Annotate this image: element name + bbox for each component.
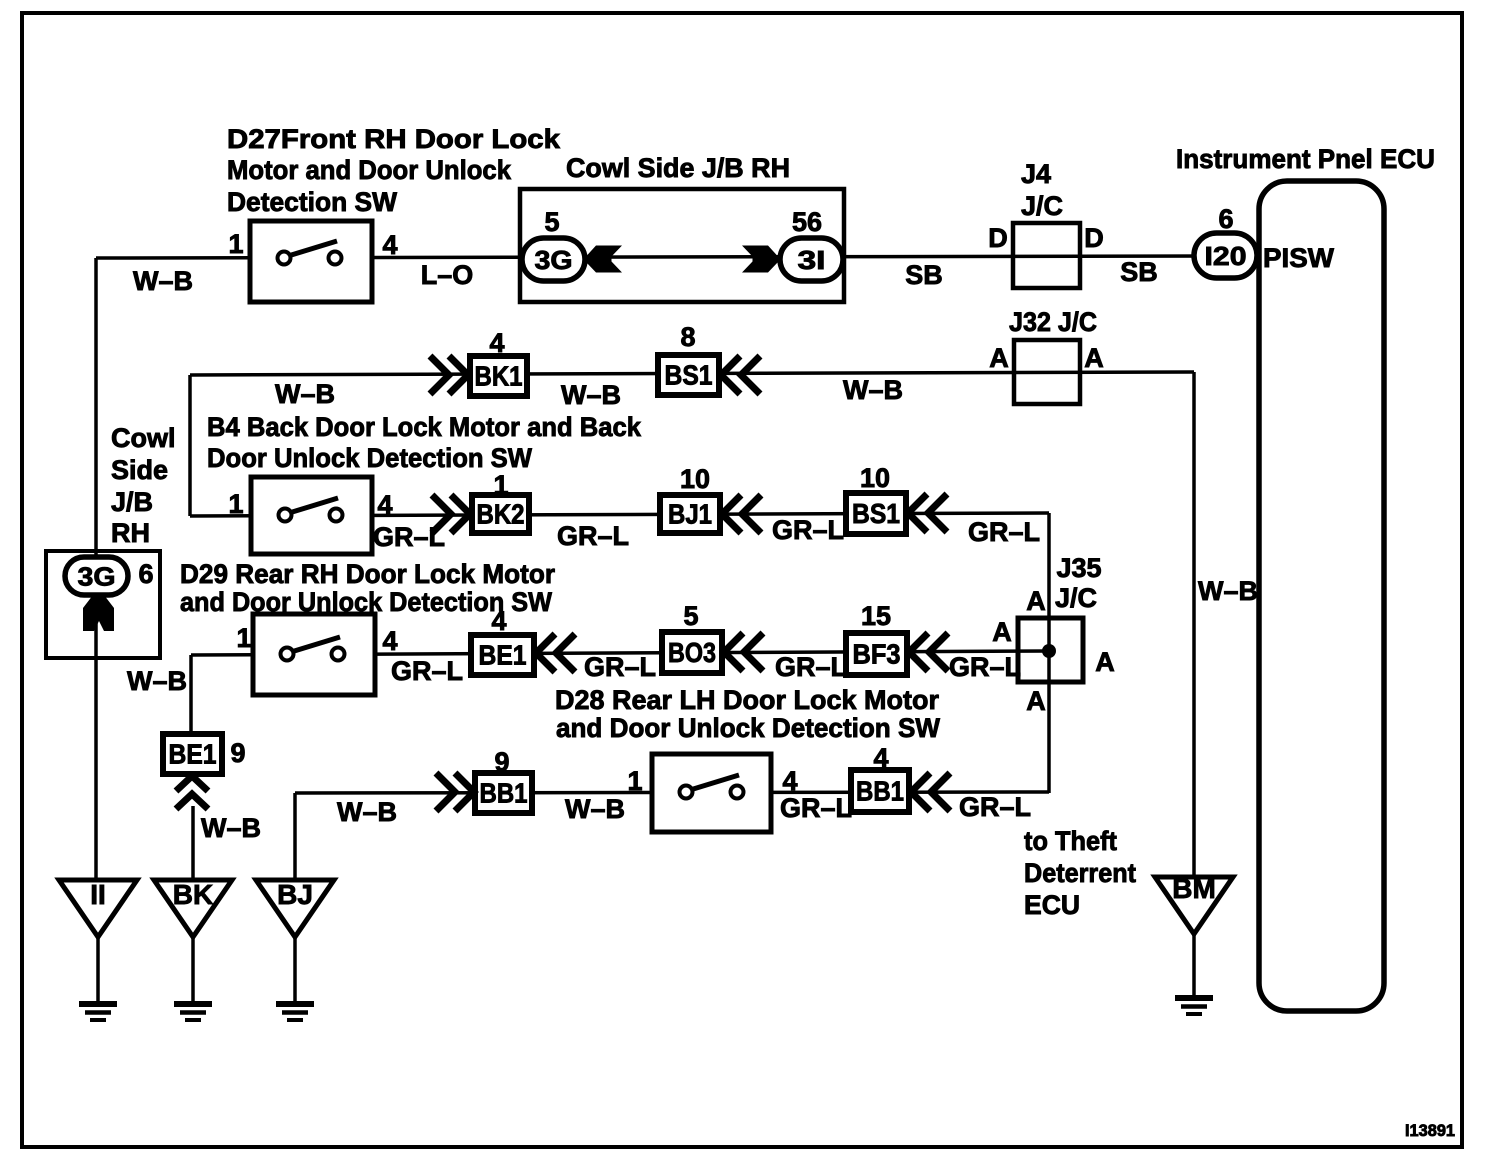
svg-text:1: 1 xyxy=(228,489,243,519)
junction block Cowl Side J/B RH (top) xyxy=(520,189,844,302)
connector arrows out of BS1 xyxy=(908,494,947,532)
connector oval 3G (left Cowl Side J/B RH pin 6) xyxy=(65,557,128,595)
switch D27 Front RH door lock motor and door unlock detection SW xyxy=(250,221,372,302)
connector BS1 xyxy=(846,493,906,534)
svg-text:GR–L: GR–L xyxy=(373,522,445,552)
svg-text:BM: BM xyxy=(1172,873,1216,904)
connector BK1 xyxy=(470,356,527,396)
connector BS1 xyxy=(658,355,719,395)
svg-text:4: 4 xyxy=(782,766,797,796)
svg-text:L–O: L–O xyxy=(421,260,474,290)
svg-text:GR–L: GR–L xyxy=(949,652,1021,682)
connector BB1 xyxy=(851,770,909,812)
svg-text:8: 8 xyxy=(680,322,695,352)
wire riser row2 to B4 pin 1 xyxy=(188,375,192,516)
ECU box Instrument Pnel ECU xyxy=(1259,181,1384,1011)
switch B4 back door lock motor and back door unlock detection SW xyxy=(251,477,372,554)
svg-text:BS1: BS1 xyxy=(852,498,900,529)
svg-text:BE1: BE1 xyxy=(169,739,217,770)
svg-text:Instrument Pnel ECU: Instrument Pnel ECU xyxy=(1176,144,1435,174)
connector arrows into BK1 xyxy=(430,356,468,394)
svg-text:GR–L: GR–L xyxy=(780,793,852,823)
connector oval I20 (Instrument Pnel ECU pin 6) xyxy=(1194,233,1257,278)
junction block Cowl Side J/B RH (left) xyxy=(46,551,160,658)
svg-text:4: 4 xyxy=(382,230,397,260)
svg-text:W–B: W–B xyxy=(565,794,625,824)
svg-text:RH: RH xyxy=(111,518,150,548)
connector arrows out of BO3 xyxy=(724,633,763,671)
wire riser D29 pin1 to BE1 xyxy=(189,655,193,736)
connector arrows out of BS1 xyxy=(721,356,760,394)
svg-text:GR–L: GR–L xyxy=(584,652,656,682)
wire GR-L row 4 xyxy=(191,651,1049,655)
connector arrows out of BJ1 xyxy=(722,495,761,533)
ground symbol BK xyxy=(174,1004,212,1020)
svg-text:PISW: PISW xyxy=(1263,243,1335,273)
svg-text:GR–L: GR–L xyxy=(959,792,1031,822)
svg-text:1: 1 xyxy=(236,623,251,653)
connector BB1 xyxy=(475,773,532,813)
svg-text:W–B: W–B xyxy=(561,380,621,410)
svg-text:Door Unlock Detection SW: Door Unlock Detection SW xyxy=(207,443,532,473)
connector BE1 xyxy=(163,734,222,774)
svg-text:W–B: W–B xyxy=(127,666,187,696)
connector arrows out of BB1 xyxy=(911,773,950,811)
connector arrows out of BF3 xyxy=(909,633,948,671)
svg-text:9: 9 xyxy=(230,738,245,768)
solid arrow into 3G xyxy=(586,246,622,273)
svg-text:4: 4 xyxy=(491,606,506,636)
svg-text:BJ1: BJ1 xyxy=(668,499,712,530)
solid ribbon arrow below left 3G xyxy=(83,595,114,631)
svg-text:1: 1 xyxy=(228,229,243,259)
junction connector J35 J/C xyxy=(1018,618,1083,682)
svg-text:D29 Rear RH Door Lock Motor: D29 Rear RH Door Lock Motor xyxy=(180,559,555,589)
svg-text:W–B: W–B xyxy=(843,375,903,405)
svg-text:B4 Back Door Lock Motor and Ba: B4 Back Door Lock Motor and Back xyxy=(207,412,642,442)
wire W-B vertical to ground BM xyxy=(1192,372,1196,879)
svg-text:4: 4 xyxy=(382,626,397,656)
svg-text:D28 Rear LH Door Lock Motor: D28 Rear LH Door Lock Motor xyxy=(555,685,939,715)
svg-text:10: 10 xyxy=(860,463,890,493)
svg-text:BF3: BF3 xyxy=(853,639,901,670)
ground triangle II xyxy=(59,879,137,937)
svg-text:Cowl Side J/B RH: Cowl Side J/B RH xyxy=(566,153,790,183)
svg-text:GR–L: GR–L xyxy=(557,521,629,551)
ground triangle BJ xyxy=(256,879,334,937)
svg-text:3G: 3G xyxy=(78,562,116,592)
connector arrows into BB1 xyxy=(436,773,474,811)
svg-text:SB: SB xyxy=(1120,257,1158,287)
svg-text:Detection SW: Detection SW xyxy=(227,187,397,217)
svg-text:BE1: BE1 xyxy=(479,640,527,671)
wire ground stem BJ xyxy=(293,937,297,1004)
connector arrows below BE1 (up) xyxy=(176,776,208,809)
svg-text:Motor and Door Unlock: Motor and Door Unlock xyxy=(227,155,512,185)
svg-text:4: 4 xyxy=(489,328,504,358)
svg-text:A: A xyxy=(989,343,1009,373)
svg-text:J/C: J/C xyxy=(1055,583,1097,613)
ground symbol BJ xyxy=(276,1004,314,1020)
svg-text:9: 9 xyxy=(494,747,509,777)
connector BO3 xyxy=(662,632,722,673)
wire riser row5 to ground BJ xyxy=(293,793,297,881)
wire GR-L row 3 xyxy=(190,513,1049,516)
svg-text:ECU: ECU xyxy=(1024,890,1080,920)
ground triangle BK xyxy=(154,879,232,937)
svg-text:and Door Unlock Detection SW: and Door Unlock Detection SW xyxy=(556,713,940,743)
svg-text:6: 6 xyxy=(1218,204,1233,234)
svg-text:BK1: BK1 xyxy=(475,361,523,392)
svg-text:J32 J/C: J32 J/C xyxy=(1009,307,1097,337)
svg-text:W–B: W–B xyxy=(275,379,335,409)
solid arrow into 3I xyxy=(742,246,778,273)
svg-text:D27Front RH Door Lock: D27Front RH Door Lock xyxy=(227,124,561,154)
svg-text:3G: 3G xyxy=(535,245,573,275)
svg-text:J/C: J/C xyxy=(1021,191,1063,221)
svg-text:W–B: W–B xyxy=(201,813,261,843)
svg-text:J/B: J/B xyxy=(111,487,153,517)
svg-text:BB1: BB1 xyxy=(856,776,904,807)
svg-text:Cowl: Cowl xyxy=(111,423,176,453)
connector BF3 xyxy=(846,633,907,675)
svg-text:10: 10 xyxy=(680,464,710,494)
wire ground stem BK xyxy=(191,937,195,1004)
svg-text:1: 1 xyxy=(627,766,642,796)
svg-text:BK2: BK2 xyxy=(477,499,525,530)
svg-text:4: 4 xyxy=(377,490,392,520)
svg-text:1: 1 xyxy=(493,470,508,500)
svg-text:J35: J35 xyxy=(1056,553,1101,583)
svg-text:BO3: BO3 xyxy=(668,637,716,668)
ground symbol II xyxy=(79,1004,117,1020)
svg-text:GR–L: GR–L xyxy=(772,515,844,545)
svg-text:Deterrent: Deterrent xyxy=(1024,858,1136,888)
svg-text:A: A xyxy=(1095,647,1115,677)
svg-text:4: 4 xyxy=(873,743,888,773)
wire ground stem II xyxy=(96,937,100,1004)
svg-text:A: A xyxy=(992,617,1012,647)
wire ground stem BM xyxy=(1192,934,1196,998)
ground triangle BM xyxy=(1155,873,1233,934)
connector oval 3I (Cowl Side J/B RH pin 56) xyxy=(780,238,843,281)
svg-text:5: 5 xyxy=(544,207,559,237)
svg-text:II: II xyxy=(90,879,106,910)
svg-text:GR–L: GR–L xyxy=(775,652,847,682)
junction connector J32 J/C xyxy=(1014,340,1080,404)
connector arrows out of BE1 xyxy=(536,634,575,672)
connector BE1 xyxy=(471,635,534,675)
svg-text:BS1: BS1 xyxy=(665,360,713,391)
svg-text:D: D xyxy=(988,223,1008,253)
svg-text:I20: I20 xyxy=(1205,241,1247,271)
svg-text:GR–L: GR–L xyxy=(968,517,1040,547)
junction node A (J35) xyxy=(1042,644,1056,658)
svg-text:56: 56 xyxy=(792,207,822,237)
svg-text:SB: SB xyxy=(905,260,943,290)
wire GR-L vertical through J35 xyxy=(1047,513,1051,793)
wire W-B below BE1 to ground BK xyxy=(191,806,195,881)
wire W-B / L-O / SB top row xyxy=(96,256,1210,258)
connector arrows into BK2 xyxy=(432,495,470,533)
svg-text:GR–L: GR–L xyxy=(391,656,463,686)
connector BJ1 xyxy=(660,495,720,533)
svg-text:6: 6 xyxy=(138,559,153,589)
svg-text:W–B: W–B xyxy=(1198,576,1258,606)
svg-text:A: A xyxy=(1026,586,1046,616)
svg-text:BJ: BJ xyxy=(277,879,313,910)
wire W-B row 2 xyxy=(190,372,1194,375)
svg-text:BK: BK xyxy=(173,879,213,910)
svg-text:W–B: W–B xyxy=(337,797,397,827)
switch D29 rear RH door lock motor and door unlock detection SW xyxy=(253,614,375,695)
svg-text:to Theft: to Theft xyxy=(1024,826,1117,856)
svg-text:BB1: BB1 xyxy=(480,778,528,809)
switch D28 rear LH door lock motor and door unlock detection SW xyxy=(652,754,771,832)
junction connector J4 J/C xyxy=(1013,223,1080,288)
wire W-B / GR-L row 5 xyxy=(295,792,1049,793)
svg-text:A: A xyxy=(1026,686,1046,716)
svg-text:5: 5 xyxy=(683,601,698,631)
svg-text:3I: 3I xyxy=(798,245,826,275)
svg-text:Side: Side xyxy=(111,455,168,485)
ground symbol BM xyxy=(1175,998,1213,1014)
svg-text:I13891: I13891 xyxy=(1405,1121,1455,1140)
connector oval 3G (Cowl Side J/B RH pin 5) xyxy=(522,238,585,281)
connector BK2 xyxy=(472,495,529,533)
svg-text:W–B: W–B xyxy=(133,266,193,296)
svg-text:D: D xyxy=(1084,223,1104,253)
svg-text:A: A xyxy=(1084,343,1104,373)
svg-text:15: 15 xyxy=(861,601,891,631)
svg-text:J4: J4 xyxy=(1021,159,1051,189)
wire W-B left vertical to ground II xyxy=(94,258,98,881)
